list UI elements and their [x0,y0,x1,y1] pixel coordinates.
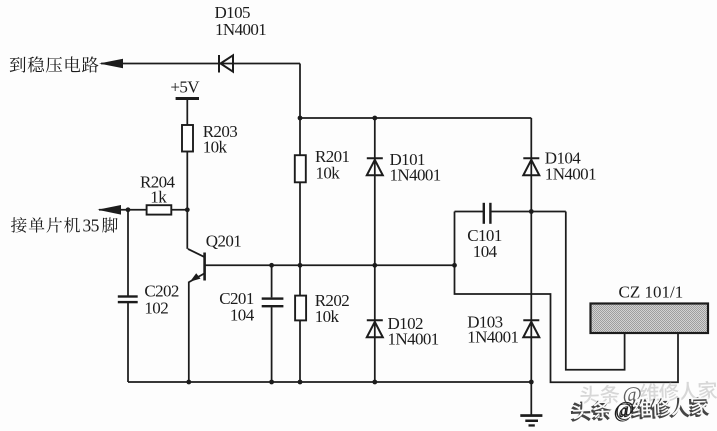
wire: C201 branch x=271.6 [271,265,273,382]
svg-text:1N4001: 1N4001 [545,165,596,184]
junction node 10 [186,380,191,385]
wire: top-left output wire to regulator [101,63,300,65]
resistor R202 10k [295,291,349,326]
label D103 [467,312,518,346]
junction node 5 [529,209,534,214]
svg-text:@: @ [615,397,635,422]
diode D105 1N4001 [219,55,233,73]
junction node 8 [372,263,377,268]
svg-text:+5V: +5V [170,77,200,96]
diode D101 1N4001 [367,158,383,175]
junction node 13 [372,380,377,385]
connector CZ 101/1 [591,283,709,334]
label D102 [388,314,439,348]
svg-text:104: 104 [473,242,498,261]
label D105 [215,3,267,39]
diode D104 1N4001 [523,158,539,175]
svg-text:1N4001: 1N4001 [390,165,441,184]
wire: D101/D102 branch x=374.8 [374,118,376,382]
svg-text:1N4001: 1N4001 [467,327,518,346]
svg-text:104: 104 [230,306,255,325]
svg-text:1N4001: 1N4001 [215,20,266,39]
wire: Q201 emitter down [188,282,190,383]
label D101 [390,150,441,184]
power +5V [170,77,200,100]
wire: ground rail y=382 [128,381,531,383]
watermark 头条@维修人家 white face [572,394,710,423]
svg-text:1N4001: 1N4001 [388,329,439,348]
wire: R204 row y=209.8 with arrow to MCU pin 35 [99,209,187,211]
diode D103 1N4001 [523,320,539,337]
junction node 14 [529,380,534,385]
capacitor C101 104 [467,203,502,261]
junction node 3 [126,207,131,212]
diode D102 1N4001 [367,320,383,337]
svg-text:CZ 101/1: CZ 101/1 [619,283,684,302]
capacitor C202 102 [118,282,179,318]
svg-text:1k: 1k [150,187,167,206]
svg-text:Q201: Q201 [206,232,241,251]
watermark shadow 头条@维修人家 [571,395,709,424]
transistor Q201 [188,232,241,283]
wire: C202 branch x=128 [127,210,129,382]
svg-text:35: 35 [83,215,100,235]
junction node 11 [269,380,274,385]
junction node 4 [185,207,190,212]
wire: C101 row y=211.5 [455,211,566,213]
resistor R203 10k [182,122,237,157]
ground [520,414,542,426]
wire: top bus y=118 [300,117,531,119]
label D104 [545,149,596,184]
junction node 6 [269,263,274,268]
svg-text:10k: 10k [316,163,341,182]
wire: +5V feed through R203 down to Q201 collector [186,100,188,249]
svg-text:102: 102 [144,299,168,318]
junction node 7 [298,263,303,268]
junction node 2 [372,116,377,121]
net label 到稳压电路 [10,56,99,72]
wire: main vertical line x=300 (D105 cathode to ground rail) [299,64,301,383]
node: arrow to 接单片机35脚 [98,205,122,215]
junction node 12 [298,380,303,385]
junction node 9 [452,263,457,268]
resistor R201 10k [295,147,350,182]
watermark ghost 头条@维修人家 [580,379,717,408]
node: arrow to 到稳压电路 [99,59,123,69]
wire: C101 left leg to CZ right pin [455,212,679,383]
wire: Q201 base bus y=265.3 [206,264,455,266]
junction node 1 [298,116,303,121]
wire: D104/D103 branch x=531.3 down to ground [530,118,532,415]
resistor R204 1k [140,172,176,214]
svg-text:10k: 10k [315,307,340,326]
svg-text:10k: 10k [203,138,228,157]
capacitor C201 104 [219,289,283,325]
net label 接单片机35脚 [11,215,100,235]
wire: C101 right leg to CZ left pin [566,212,625,370]
